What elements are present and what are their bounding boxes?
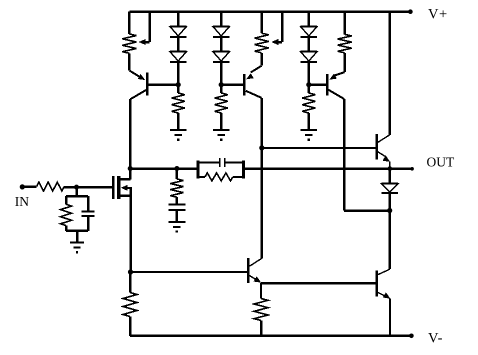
svg-text:OUT: OUT: [427, 154, 455, 169]
svg-text:IN: IN: [15, 194, 29, 209]
svg-text:V-: V-: [428, 330, 443, 346]
svg-text:V+: V+: [428, 6, 448, 22]
